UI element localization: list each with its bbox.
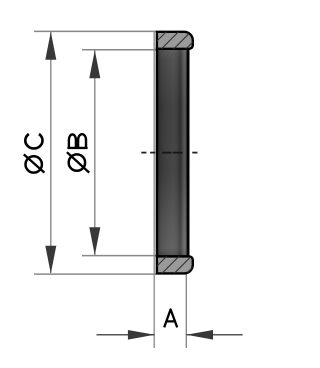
arrow A right (pointing left) xyxy=(186,330,213,340)
arrow OB down xyxy=(89,227,100,255)
dimension line A right segment xyxy=(186,334,242,336)
dimension line OC (vertical) xyxy=(50,32,52,273)
arrow A left (pointing right) xyxy=(128,330,155,340)
extension line A right (vertical) xyxy=(185,274,187,348)
arrow OC down xyxy=(45,246,56,274)
part body (bore, elevation) xyxy=(157,49,188,257)
extension line OB bottom xyxy=(82,255,157,257)
label OB (drawn glyphs, rotated) xyxy=(67,134,89,172)
extension line OC top xyxy=(34,30,157,32)
top wall section (hatched) xyxy=(149,30,206,50)
centerline (dash-dot) xyxy=(141,152,197,154)
label A (drawn glyph) xyxy=(164,309,177,327)
bottom wall section (hatched) xyxy=(149,255,206,275)
arrow OC up xyxy=(45,32,56,60)
dimension line OB (vertical) xyxy=(94,50,96,255)
dimension line A left segment xyxy=(97,334,155,336)
extension line OC bottom xyxy=(34,273,157,275)
arrow OB up xyxy=(89,50,100,78)
extension line A left (vertical) xyxy=(153,31,155,348)
label OC (drawn glyphs, rotated) xyxy=(24,134,45,173)
extension line OB top xyxy=(82,49,157,51)
